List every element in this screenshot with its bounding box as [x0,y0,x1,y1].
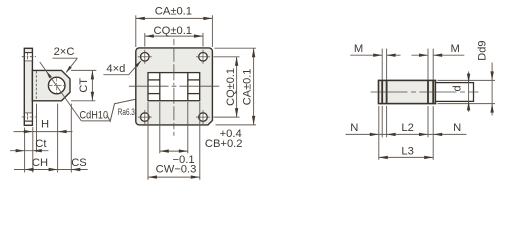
CT dimension [71,69,96,71]
svg-text:L2: L2 [401,122,413,134]
CW dimension [148,176,200,178]
svg-text:CH: CH [32,157,48,169]
svg-text:M: M [354,43,363,55]
svg-text:Ct: Ct [35,138,47,150]
CB dimension [160,150,188,152]
CdH10 leader through hole [40,62,82,121]
central square hole feature [148,73,200,101]
svg-text:Dd9: Dd9 [476,41,488,61]
shaft centerline [371,91,479,93]
stub small diameter [436,83,474,102]
CH dimension [14,169,88,171]
flange bottom rim light gap [25,122,32,125]
svg-text:CQ±0.1: CQ±0.1 [225,68,237,106]
svg-text:H: H [41,119,49,131]
hole centerline top (dashed) [22,56,36,58]
svg-text:2×C: 2×C [54,46,75,58]
svg-text:N: N [350,122,358,134]
right side CA vertical dimension [214,47,256,49]
svg-text:CA±0.1: CA±0.1 [155,5,192,17]
flange plate (side view, left) [24,48,32,125]
svg-text:CB+0.2: CB+0.2 [205,138,243,150]
H dimension [14,131,73,133]
square flange plate (front view) [136,48,213,125]
hole edge lines in flange side view [24,52,32,54]
extension lines below left view [24,128,26,173]
hole void bands (white) in flange side view [25,53,32,61]
hole centerline ticks [48,85,66,87]
svg-text:Ra6.3: Ra6.3 [118,107,135,117]
groove extension lines above [381,49,383,80]
body block with chamfered corners (side view) [32,70,70,100]
svg-text:CS: CS [71,157,87,169]
center hole circle CdH10 [48,77,65,94]
svg-text:d: d [451,85,463,91]
svg-text:CQ±0.1: CQ±0.1 [154,25,192,37]
vertical centerline of plate [173,39,175,136]
shaft cylinder [379,80,436,103]
svg-text:4×d: 4×d [106,63,125,75]
svg-text:CT: CT [78,78,90,93]
N / L2 / N dimension line [346,133,467,135]
svg-text:N: N [453,122,461,134]
horizontal centerline of plate [129,85,220,87]
grooves on cylinder [381,80,383,103]
M dimension right [412,54,429,56]
surface finish check Ra6.3 [107,99,137,121]
svg-text:CdH10: CdH10 [80,110,109,122]
svg-text:CA±0.1: CA±0.1 [242,69,254,106]
extension lines below shaft [378,106,380,160]
CQ top dimension [144,33,146,47]
CA top dimension [135,15,137,47]
svg-text:M: M [451,43,460,55]
4 mounting holes with center crosses [141,53,150,62]
Dd9 dimension [438,79,496,81]
d dimension [468,72,470,112]
M dimension left [350,54,382,56]
extension lines below plate [147,102,149,180]
L3 dimension [379,156,433,158]
CS dimension [71,168,80,171]
hidden hole lines (dashed) in flange [27,53,29,60]
svg-text:L3: L3 [401,146,413,158]
Ct dimension [10,150,49,152]
svg-text:CW−0.3: CW−0.3 [156,163,197,175]
right side CQ vertical dimension [214,56,240,58]
hole centerline bottom (dashed) [22,116,36,118]
leader 2xC [66,58,77,72]
hidden line flange back face [35,71,37,100]
